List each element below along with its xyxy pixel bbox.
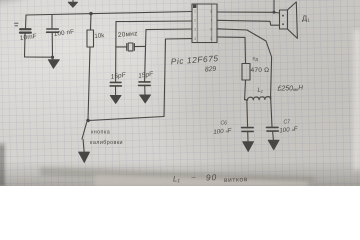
wire pin3 left [146, 28, 192, 31]
wire pin4 left [166, 38, 193, 40]
switch SB1 calibration button [82, 123, 87, 152]
ground (C3) [110, 95, 121, 103]
svg-text:C7: C7 [284, 120, 291, 126]
svg-text:829: 829 [205, 66, 217, 74]
capacitor C1 10mF (electrolytic) [15, 15, 31, 57]
svg-text:10k: 10k [94, 32, 105, 40]
svg-text:5: 5 [210, 37, 212, 41]
svg-text:калибровки: калибровки [90, 140, 123, 146]
paper base [0, 0, 360, 186]
wire osc2 vertical [145, 30, 146, 82]
power arrow (supply input, top) [68, 0, 77, 7]
left edge dark sliver [0, 144, 5, 186]
capacitor C6 100nF [242, 100, 254, 142]
svg-text:C6: C6 [221, 121, 228, 127]
crystal XT1 20MHz [116, 43, 145, 51]
svg-text:Rд: Rд [253, 57, 259, 62]
capacitor C4 15pF (right) [139, 82, 151, 95]
wire pin5 right [217, 37, 246, 64]
wire pin2 left [116, 20, 192, 23]
svg-text:витков: витков [224, 176, 248, 184]
svg-text:6: 6 [210, 28, 212, 32]
svg-text:470 Ω: 470 Ω [251, 67, 270, 74]
ground (left) [48, 57, 59, 68]
svg-text:7: 7 [210, 19, 212, 23]
wire VCC top rail [26, 12, 192, 16]
wire pin6 right diagonal [217, 29, 272, 97]
svg-text:£250мкH: £250мкH [277, 84, 304, 92]
wire pin7 right to speaker [217, 20, 280, 25]
bottom-left dark corner [0, 170, 40, 218]
IC U1 PIC12F675 body [192, 4, 217, 43]
svg-text:90: 90 [206, 172, 218, 182]
right edge bright strip [354, 30, 360, 170]
ink layer [15, 0, 298, 163]
top-left dark corner [0, 0, 58, 12]
node left-gnd junction [51, 56, 54, 59]
resistor R1 10k [87, 14, 94, 121]
svg-text:кнопка: кнопка [91, 130, 110, 136]
inductor L1 [245, 96, 271, 100]
capacitor C2 100nF [47, 15, 59, 57]
svg-text:2: 2 [194, 19, 196, 23]
wire pin8 right to speaker [217, 11, 274, 13]
graph grid [0, 0, 360, 186]
wire bottom rail [88, 117, 164, 121]
wire from top edge [273, 0, 275, 12]
capacitor C7 100nF [267, 96, 279, 140]
svg-text:L₁: L₁ [258, 88, 263, 94]
wire osc1 vertical [115, 22, 117, 82]
ground (C6) [243, 142, 254, 152]
wire left bottom [25, 56, 53, 58]
ground (C7) [268, 140, 279, 150]
speaker LS1 [280, 2, 298, 39]
bright center spot [0, 0, 230, 143]
node bottom rail junction [86, 119, 90, 123]
bottom shadow overlay [0, 161, 360, 186]
bottom paper edge shadow band [40, 167, 315, 182]
resistor R2 470 [242, 64, 250, 100]
lower sheet strip [95, 175, 308, 186]
ground (switch) [79, 152, 90, 163]
node speaker junction [273, 11, 276, 14]
svg-text:3: 3 [194, 28, 196, 32]
svg-text:1: 1 [194, 10, 196, 14]
ground (C4) [140, 95, 151, 103]
svg-text:L₁: L₁ [173, 174, 181, 183]
capacitor C3 15pF (left) [110, 82, 121, 95]
wire riser to pin4 [164, 39, 166, 117]
bottom handwritten note: L1 - 90 vitkov [173, 172, 248, 184]
node VCC/10k junction [89, 12, 92, 15]
svg-text:–: – [191, 172, 195, 181]
svg-text:4: 4 [194, 37, 196, 41]
svg-text:8: 8 [210, 10, 212, 14]
